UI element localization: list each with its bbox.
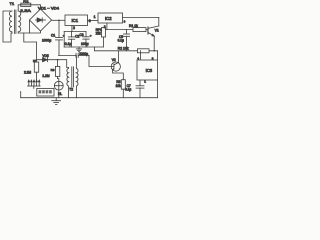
svg-text:T1: T1: [10, 1, 15, 6]
potentiometer RP1 22k: [102, 28, 106, 48]
wire RP1/IC2 to R1: [106, 29, 134, 31]
svg-text:C1: C1: [51, 33, 55, 37]
svg-text:100μ: 100μ: [81, 42, 89, 46]
resistor R1 1k: [133, 28, 146, 32]
bottom rail: [21, 97, 158, 99]
svg-text:2: 2: [73, 26, 75, 30]
wire into IC3 top: [157, 51, 159, 60]
svg-text:1: 1: [94, 15, 96, 19]
node V1 emitter join: [153, 50, 155, 52]
ground symbol main: [52, 98, 61, 105]
capacitor C6 2200p: [76, 53, 89, 57]
capacitor C7: [136, 86, 144, 98]
text touch electrode: [39, 90, 52, 93]
pin drop IC3 top left: [140, 51, 142, 60]
svg-text:FU1: FU1: [23, 0, 29, 3]
resistor R2 10k: [138, 49, 150, 53]
svg-text:IC3: IC3: [146, 68, 153, 73]
wire AC input loop: [3, 11, 12, 42]
svg-text:C3: C3: [80, 33, 84, 37]
svg-text:2200p: 2200p: [79, 52, 88, 56]
svg-text:R6: R6: [51, 68, 55, 72]
svg-text:V2: V2: [112, 58, 116, 62]
wire C6 down to V2 base: [89, 55, 114, 66]
capacitor C3: [83, 32, 89, 48]
wire VD5 to T2 top: [58, 60, 69, 68]
rail left stub: [20, 92, 22, 98]
capacitor C2: [68, 32, 74, 48]
transformer T2: [67, 55, 78, 97]
svg-text:1000μ: 1000μ: [42, 38, 51, 42]
wire secondary bottom to bridge bottom: [18, 31, 40, 33]
wire ground spine down: [35, 42, 37, 62]
wire DC+ bridge to IC1: [52, 19, 66, 21]
svg-text:+: +: [90, 34, 92, 38]
wire C1 top to C6: [59, 54, 77, 56]
pin 2 IC1 bottom: [71, 26, 73, 32]
wire secondary top to fuse: [18, 5, 21, 11]
rail under IC1: [64, 31, 86, 33]
touch plate electrode: [28, 80, 41, 88]
node C1 tap: [58, 20, 60, 22]
svg-text:10k: 10k: [116, 84, 122, 88]
svg-text:V1: V1: [155, 29, 159, 33]
svg-text:R7: R7: [33, 59, 37, 63]
svg-text:0.1μ: 0.1μ: [65, 42, 72, 46]
svg-text:HL: HL: [58, 92, 62, 96]
svg-text:IC1: IC1: [72, 18, 79, 23]
label box touch electrode: [37, 88, 54, 96]
svg-text:22k: 22k: [96, 31, 102, 35]
diode inside bridge: [36, 18, 46, 22]
svg-text:VD1 ~ VD4: VD1 ~ VD4: [38, 7, 59, 11]
wire IC2 output top right: [123, 17, 159, 19]
capacitor C1 1000u: [56, 20, 63, 55]
wire left drop of rail: [63, 32, 65, 48]
capacitor C5: [123, 30, 129, 51]
svg-text:2.2M: 2.2M: [24, 70, 31, 74]
svg-text:2.5A: 2.5A: [20, 8, 31, 13]
svg-text:0.1μ: 0.1μ: [125, 88, 131, 92]
transformer T1: [9, 10, 20, 34]
resistor R5 10k: [121, 80, 125, 98]
transistor V2: [111, 51, 123, 80]
pin 2 IC2 bottom: [106, 23, 108, 30]
op IC1 box: [65, 15, 88, 26]
node junction at x23.8 y33: [24, 33, 37, 42]
resistor R6 1.2M: [55, 60, 59, 82]
svg-text:VD5: VD5: [42, 54, 48, 58]
wire jog down to lower rail: [94, 47, 157, 51]
svg-text:IC2: IC2: [105, 16, 112, 21]
mid ground rail: [64, 46, 103, 48]
svg-text:3: 3: [124, 20, 126, 24]
svg-text:0.1μ: 0.1μ: [118, 39, 124, 43]
svg-text:T2: T2: [69, 88, 73, 92]
diode VD5: [36, 58, 57, 62]
IC2 box: [98, 13, 123, 23]
node VD5 out: [57, 59, 59, 61]
resistor R7 2.2M: [34, 62, 38, 80]
svg-text:R1 1k: R1 1k: [129, 24, 138, 28]
bridge rectifier VD1~VD4: [30, 9, 52, 31]
svg-text:R2 10k: R2 10k: [118, 46, 129, 50]
neon lamp HL: [54, 81, 63, 97]
svg-text:1.2M: 1.2M: [42, 74, 49, 78]
IC3 box: [137, 60, 158, 80]
wire IC3 right down to rail: [157, 80, 159, 98]
pin IC3 bottom: [139, 80, 141, 86]
wire IC1 to IC2: [88, 20, 99, 22]
transistor V1: [146, 18, 159, 51]
ground symbol mid: [76, 47, 81, 52]
fuse FU1: [21, 3, 31, 6]
wire bridge left vertex down (DC-): [29, 20, 31, 33]
wire fuse to bridge top: [31, 5, 41, 9]
